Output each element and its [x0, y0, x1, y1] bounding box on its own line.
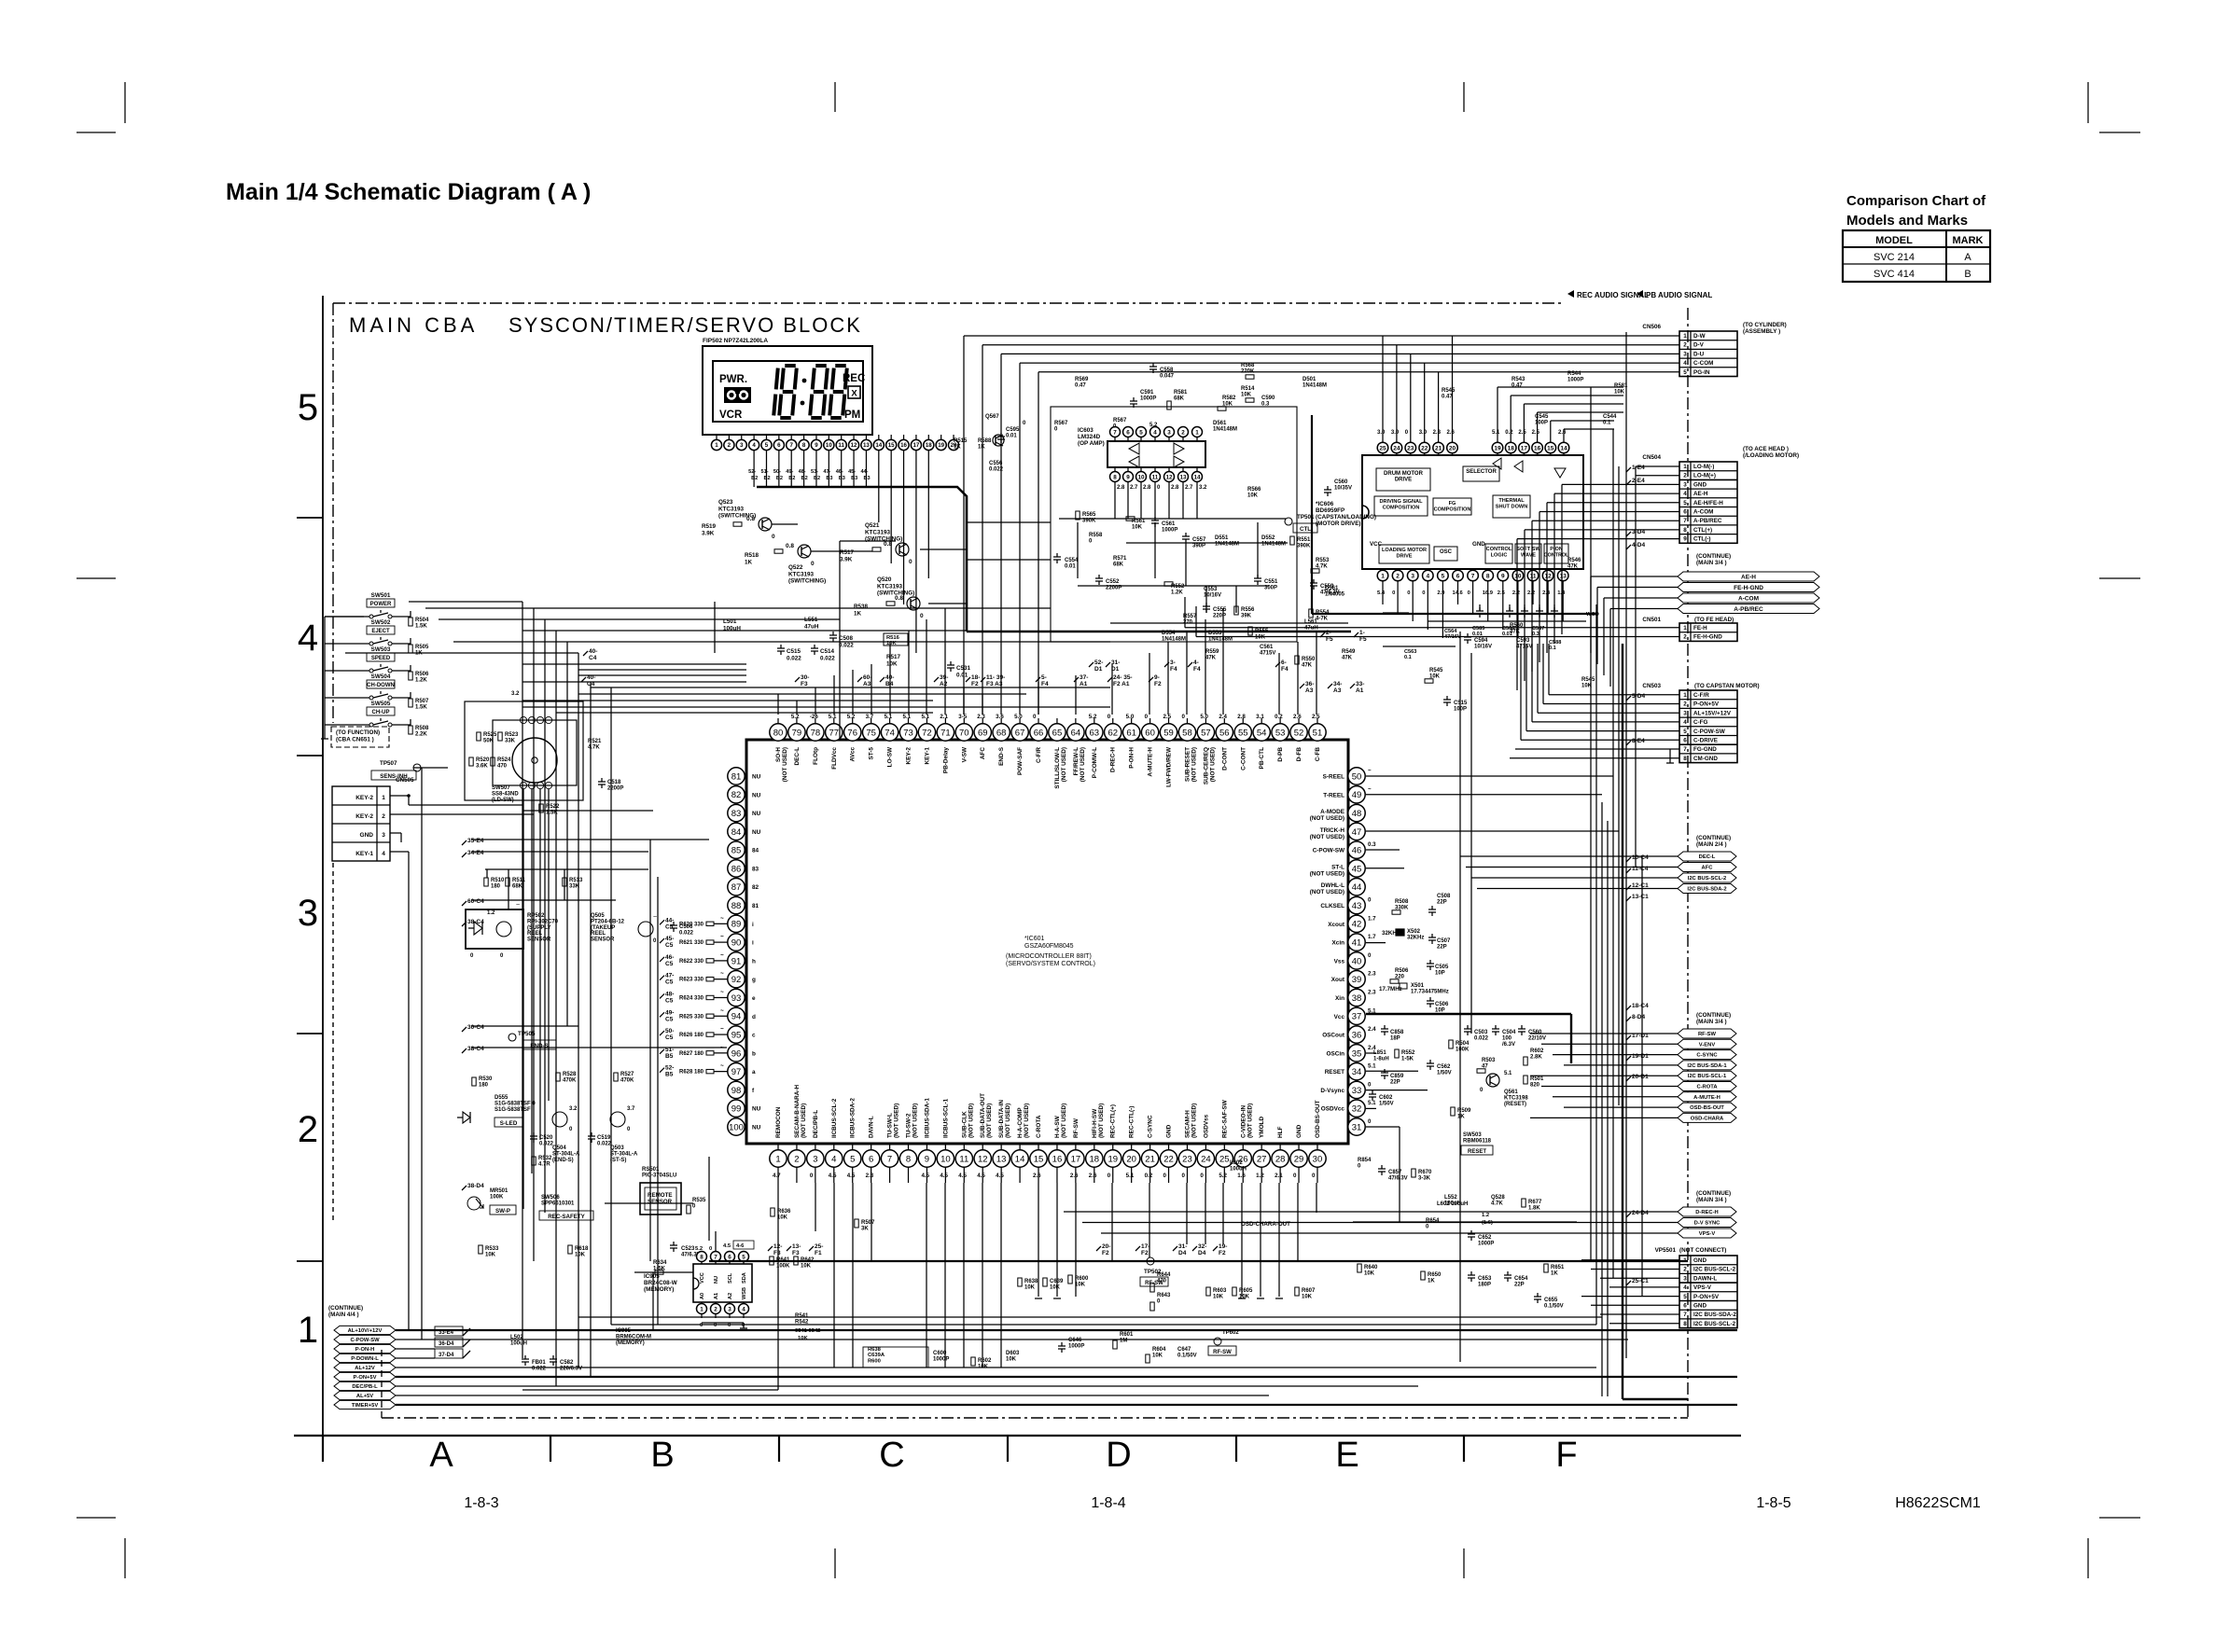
- svg-text:REEL: REEL: [591, 931, 606, 937]
- svg-text:45-: 45-: [665, 936, 674, 942]
- svg-text:SENSOR: SENSOR: [527, 937, 551, 943]
- svg-text:DEC-L: DEC-L: [1699, 854, 1716, 860]
- svg-text:A3: A3: [1333, 687, 1342, 694]
- svg-text:C520: C520: [539, 1135, 553, 1141]
- svg-text:1: 1: [1381, 573, 1385, 579]
- svg-text:D4: D4: [1178, 1250, 1187, 1256]
- svg-text:10/16V: 10/16V: [1474, 644, 1492, 649]
- svg-text:97: 97: [731, 1067, 742, 1077]
- svg-text:100uH: 100uH: [510, 1340, 527, 1346]
- svg-text:36-D4: 36-D4: [439, 1341, 454, 1347]
- svg-text:50-: 50-: [665, 1028, 674, 1034]
- svg-text:0: 0: [709, 1246, 712, 1252]
- svg-text:WSB: WSB: [742, 1287, 747, 1299]
- svg-text:180P: 180P: [1478, 1282, 1491, 1287]
- svg-text:0: 0: [1107, 1173, 1111, 1179]
- svg-text:A-PB/REC: A-PB/REC: [1734, 606, 1763, 613]
- svg-text:T-REEL: T-REEL: [1323, 792, 1344, 798]
- svg-text:47/16V: 47/16V: [1444, 634, 1461, 640]
- svg-text:10K: 10K: [801, 1263, 812, 1269]
- svg-text:82: 82: [752, 884, 759, 891]
- svg-text:R509: R509: [1457, 1108, 1471, 1114]
- svg-text:~: ~: [720, 1045, 724, 1051]
- svg-text:R621 330: R621 330: [679, 940, 704, 946]
- svg-text:36: 36: [1352, 1030, 1362, 1040]
- svg-text:REC-CTL(+): REC-CTL(+): [1110, 1104, 1117, 1138]
- svg-text:Q567: Q567: [985, 414, 999, 420]
- svg-text:3: 3: [382, 832, 385, 839]
- svg-text:R670: R670: [1418, 1170, 1432, 1175]
- svg-text:C-DRIVE: C-DRIVE: [1693, 737, 1718, 743]
- svg-text:R626 180: R626 180: [679, 1033, 704, 1038]
- svg-text:X501: X501: [1411, 983, 1425, 989]
- svg-text:470: 470: [497, 763, 508, 769]
- svg-text:a: a: [752, 1069, 756, 1076]
- svg-text:(ASSEMBLY ): (ASSEMBLY ): [1743, 328, 1780, 335]
- svg-text:64: 64: [1071, 728, 1081, 738]
- svg-text:(NOT USED): (NOT USED): [1098, 1104, 1105, 1138]
- svg-text:25: 25: [1379, 445, 1386, 451]
- svg-text:11: 11: [1152, 474, 1159, 480]
- svg-text:0: 0: [1468, 590, 1470, 596]
- svg-text:P-ON-H: P-ON-H: [355, 1347, 375, 1353]
- svg-text:R527: R527: [620, 1072, 634, 1077]
- svg-text:D603: D603: [1006, 1351, 1020, 1356]
- svg-text:7: 7: [887, 1154, 892, 1164]
- svg-text:53-: 53-: [811, 469, 818, 475]
- svg-text:6: 6: [1683, 1302, 1687, 1309]
- svg-text:11: 11: [959, 1154, 968, 1164]
- svg-text:0: 0: [810, 1173, 814, 1179]
- svg-text:2.8K: 2.8K: [1530, 1054, 1542, 1060]
- svg-text:C-POW-SW: C-POW-SW: [1693, 729, 1725, 735]
- svg-text:220P: 220P: [1213, 613, 1226, 618]
- svg-text:(MAIN 4/4 ): (MAIN 4/4 ): [328, 1312, 359, 1318]
- svg-text:BR24C08-W: BR24C08-W: [644, 1280, 677, 1286]
- svg-text:KTC3193: KTC3193: [877, 583, 902, 590]
- svg-text:1000P: 1000P: [1140, 396, 1156, 401]
- svg-text:5.1: 5.1: [885, 714, 893, 720]
- svg-text:2.6: 2.6: [1293, 714, 1302, 720]
- svg-text:1N4148M: 1N4148M: [1215, 541, 1239, 547]
- svg-text:g: g: [752, 977, 756, 983]
- svg-text:R628 180: R628 180: [679, 1070, 704, 1076]
- svg-text:100: 100: [729, 1122, 744, 1132]
- svg-text:DEC/PB-L: DEC/PB-L: [813, 1110, 819, 1138]
- svg-text:91: 91: [731, 956, 742, 966]
- svg-text:3.1: 3.1: [1256, 714, 1264, 720]
- svg-text:3K: 3K: [861, 1226, 869, 1231]
- svg-text:P-DOWN-L: P-DOWN-L: [351, 1356, 379, 1362]
- svg-text:F2: F2: [971, 681, 979, 687]
- svg-text:0.01: 0.01: [1502, 632, 1512, 637]
- svg-text:50-: 50-: [773, 469, 781, 475]
- svg-text:LOADING MOTOR: LOADING MOTOR: [1382, 548, 1427, 553]
- svg-text:ST-5: ST-5: [869, 747, 875, 760]
- svg-text:C519: C519: [597, 1135, 611, 1141]
- svg-text:R854: R854: [1358, 1158, 1372, 1163]
- svg-text:C561: C561: [1260, 645, 1274, 650]
- svg-text:REC-SAF-SW: REC-SAF-SW: [1221, 1099, 1228, 1138]
- svg-text:(NOT USED): (NOT USED): [1310, 834, 1344, 840]
- svg-text:SUB-DATA-IN: SUB-DATA-IN: [998, 1100, 1005, 1138]
- svg-text:1000P: 1000P: [1567, 377, 1583, 382]
- svg-text:0: 0: [1181, 1173, 1185, 1179]
- svg-text:3: 3: [298, 893, 318, 934]
- svg-text:R638: R638: [1024, 1279, 1038, 1284]
- svg-text:17-: 17-: [1141, 1243, 1149, 1250]
- svg-text:(MAIN 3/4 ): (MAIN 3/4 ): [1696, 560, 1727, 566]
- svg-text:A3: A3: [863, 681, 871, 687]
- svg-text:1: 1: [1683, 625, 1687, 632]
- svg-text:Vcc: Vcc: [1334, 1014, 1345, 1020]
- svg-text:DRIVE: DRIVE: [1396, 554, 1412, 560]
- svg-text:C582: C582: [560, 1360, 574, 1366]
- svg-text:F1: F1: [815, 1250, 822, 1256]
- svg-text:P-ON+5V: P-ON+5V: [354, 1375, 377, 1381]
- svg-text:F3: F3: [773, 1250, 781, 1256]
- svg-text:3.0: 3.0: [1419, 430, 1428, 436]
- svg-text:SO-H: SO-H: [775, 747, 782, 762]
- svg-text:62: 62: [1107, 728, 1118, 738]
- svg-text:AVcc: AVcc: [850, 747, 857, 762]
- svg-text:3.2: 3.2: [1199, 485, 1207, 491]
- svg-text:1M: 1M: [1120, 1338, 1127, 1343]
- svg-text:A-COM: A-COM: [1738, 595, 1759, 602]
- svg-text:0.022: 0.022: [1474, 1035, 1489, 1041]
- svg-text:AE-H: AE-H: [1741, 574, 1756, 580]
- svg-text:5.1: 5.1: [921, 714, 929, 720]
- svg-text:SW504: SW504: [371, 673, 391, 680]
- svg-text:(CONTINUE): (CONTINUE): [1696, 553, 1731, 560]
- svg-text:22: 22: [1421, 445, 1428, 451]
- svg-text:F4: F4: [1041, 681, 1049, 687]
- svg-text:(CONTINUE): (CONTINUE): [328, 1305, 363, 1312]
- svg-text:Q503: Q503: [610, 1145, 624, 1151]
- svg-text:R640: R640: [1364, 1265, 1378, 1270]
- svg-text:DAWN-L: DAWN-L: [1693, 1275, 1717, 1282]
- svg-text:9-: 9-: [1154, 674, 1160, 681]
- svg-text:1-8uH: 1-8uH: [1373, 1056, 1389, 1062]
- svg-text:SDA: SDA: [742, 1272, 747, 1284]
- svg-text:B2: B2: [751, 476, 758, 481]
- svg-text:1-8-3: 1-8-3: [464, 1495, 498, 1511]
- svg-text:HLF: HLF: [1277, 1126, 1284, 1138]
- svg-text:C523: C523: [681, 1246, 695, 1252]
- svg-text:SW501: SW501: [371, 592, 391, 599]
- svg-text:SW502: SW502: [371, 619, 391, 626]
- svg-text:94: 94: [731, 1012, 742, 1022]
- svg-text:37-: 37-: [1080, 674, 1088, 681]
- svg-text:R510: R510: [491, 878, 505, 883]
- svg-text:C: C: [879, 1436, 904, 1475]
- svg-text:KEY-1: KEY-1: [924, 747, 930, 765]
- svg-text:1N4148M: 1N4148M: [1261, 541, 1286, 547]
- svg-text:89: 89: [731, 920, 742, 930]
- svg-text:39-: 39-: [940, 674, 948, 681]
- svg-text:0: 0: [700, 1323, 703, 1328]
- svg-text:390K: 390K: [1297, 543, 1311, 548]
- svg-text:LO-M(+): LO-M(+): [1693, 473, 1716, 479]
- svg-text:100K: 100K: [490, 1194, 504, 1200]
- svg-text:B4: B4: [885, 681, 894, 687]
- svg-text:(NOT USED): (NOT USED): [1080, 747, 1086, 782]
- svg-text:LM324D: LM324D: [1078, 434, 1101, 440]
- svg-text:R618: R618: [575, 1246, 589, 1252]
- svg-text:D501: D501: [1303, 377, 1316, 382]
- svg-text:C-SYNC: C-SYNC: [1696, 1053, 1718, 1059]
- svg-text:AE-H/FE-H: AE-H/FE-H: [1693, 500, 1723, 507]
- svg-text:GND: GND: [1166, 1124, 1173, 1138]
- svg-text:TP507: TP507: [380, 760, 397, 767]
- svg-text:6: 6: [728, 1254, 731, 1260]
- svg-text:2.8: 2.8: [1237, 714, 1246, 720]
- svg-text:6-: 6-: [1281, 659, 1287, 666]
- svg-text:R643: R643: [1157, 1293, 1171, 1298]
- svg-text:TU-SW-2: TU-SW-2: [906, 1113, 912, 1138]
- svg-text:36-: 36-: [1305, 681, 1314, 687]
- svg-text:R545: R545: [1581, 677, 1595, 683]
- svg-text:10K: 10K: [1213, 1294, 1224, 1299]
- svg-text:2.9: 2.9: [1437, 590, 1445, 596]
- svg-text:4: 4: [1683, 1284, 1687, 1291]
- svg-text:8: 8: [906, 1154, 911, 1164]
- svg-text:P-ON+5V: P-ON+5V: [1693, 1294, 1720, 1300]
- svg-text:(NOT USED): (NOT USED): [968, 1104, 974, 1138]
- svg-text:KEY-2: KEY-2: [355, 813, 373, 820]
- svg-text:F3: F3: [801, 681, 808, 687]
- svg-text:ST-304L-A: ST-304L-A: [610, 1151, 638, 1157]
- svg-text:0.01: 0.01: [956, 672, 968, 678]
- svg-text:C544: C544: [1603, 414, 1617, 420]
- svg-text:D551: D551: [1215, 535, 1229, 541]
- svg-text:(LD-SW): (LD-SW): [492, 798, 514, 803]
- svg-text:2: 2: [714, 1306, 717, 1312]
- svg-text:AFC: AFC: [1702, 866, 1714, 871]
- svg-text:X502: X502: [1407, 929, 1421, 935]
- svg-text:C508: C508: [1437, 894, 1451, 899]
- svg-text:10K: 10K: [1006, 1356, 1017, 1362]
- svg-text:F4: F4: [1193, 666, 1201, 673]
- svg-text:2.6: 2.6: [1033, 1173, 1041, 1179]
- svg-text:R506: R506: [1395, 968, 1409, 974]
- svg-text:16: 16: [1534, 445, 1541, 451]
- svg-text:R553: R553: [1316, 558, 1330, 563]
- svg-text:SUB-DATA-OUT: SUB-DATA-OUT: [980, 1093, 986, 1138]
- svg-text:(NOT USED): (NOT USED): [1310, 815, 1344, 822]
- svg-text:MODEL: MODEL: [1875, 235, 1913, 246]
- svg-text:R530: R530: [479, 1076, 493, 1082]
- svg-text:F2: F2: [1154, 681, 1162, 687]
- svg-text:4.7K: 4.7K: [588, 744, 600, 750]
- svg-text:14: 14: [875, 442, 882, 449]
- svg-text:(SWITCHING): (SWITCHING): [788, 578, 826, 585]
- svg-text:DRUM MOTOR: DRUM MOTOR: [1384, 471, 1424, 477]
- svg-text:20-: 20-: [1102, 1243, 1110, 1250]
- svg-text:3: 3: [1683, 1275, 1687, 1282]
- svg-text:69: 69: [978, 728, 988, 738]
- svg-text:2-E4: 2-E4: [1632, 478, 1645, 484]
- svg-text:*IC601: *IC601: [1024, 936, 1045, 942]
- svg-text:TP505: TP505: [518, 1031, 536, 1037]
- svg-text:C508: C508: [839, 635, 854, 642]
- svg-text:1.7: 1.7: [1368, 934, 1376, 940]
- svg-text:AFC: AFC: [980, 747, 986, 760]
- svg-text:COMPOSITION: COMPOSITION: [1434, 507, 1471, 513]
- svg-text:WAVE: WAVE: [1521, 553, 1536, 559]
- svg-text:5.2: 5.2: [695, 1246, 703, 1252]
- svg-text:0.47: 0.47: [1075, 382, 1086, 388]
- svg-text:A-COM: A-COM: [1693, 508, 1713, 515]
- svg-text:79: 79: [792, 728, 802, 738]
- svg-text:C5: C5: [665, 997, 674, 1004]
- svg-text:B2: B2: [788, 476, 795, 481]
- svg-text:32KHz: 32KHz: [1407, 935, 1424, 940]
- svg-text:10K: 10K: [886, 660, 898, 667]
- svg-text:77: 77: [829, 728, 840, 738]
- svg-text:470K: 470K: [620, 1077, 634, 1083]
- svg-text:A0: A0: [700, 1293, 705, 1299]
- svg-text:R561: R561: [1132, 519, 1146, 524]
- svg-text:Q522: Q522: [788, 564, 803, 571]
- svg-text:12: 12: [1544, 573, 1552, 579]
- svg-text:Vss: Vss: [1334, 958, 1345, 965]
- svg-text:c: c: [752, 1033, 756, 1039]
- svg-text:13-: 13-: [792, 1243, 801, 1250]
- svg-text:3.6K: 3.6K: [476, 763, 488, 769]
- svg-text:(MEMORY): (MEMORY): [616, 1340, 645, 1346]
- svg-text:2.7: 2.7: [1130, 485, 1138, 491]
- svg-text:0: 0: [909, 559, 912, 565]
- svg-text:1000P: 1000P: [1162, 527, 1177, 533]
- svg-text:AL+15V/+12V: AL+15V/+12V: [1693, 710, 1732, 716]
- svg-text:5.1: 5.1: [903, 714, 912, 720]
- svg-text:8: 8: [1683, 527, 1687, 534]
- svg-text:8: 8: [700, 1254, 704, 1260]
- svg-text:D-V: D-V: [1693, 342, 1705, 349]
- svg-text:5.4: 5.4: [1377, 590, 1386, 596]
- svg-text:R517: R517: [886, 654, 901, 660]
- svg-text:CN501: CN501: [1642, 617, 1661, 623]
- svg-text:D-PB: D-PB: [1277, 747, 1284, 762]
- svg-text:1: 1: [1195, 429, 1199, 436]
- svg-text:D-REC-H: D-REC-H: [1695, 1210, 1718, 1215]
- svg-text:D-U: D-U: [1693, 351, 1705, 357]
- svg-text:5: 5: [765, 442, 769, 449]
- svg-text:R533: R533: [485, 1246, 499, 1252]
- svg-text:R603: R603: [1213, 1288, 1227, 1294]
- svg-text:7: 7: [1683, 746, 1687, 753]
- svg-text:3: 3: [1683, 351, 1687, 357]
- svg-text:(TO FE HEAD): (TO FE HEAD): [1694, 617, 1734, 623]
- svg-text:15: 15: [888, 442, 895, 449]
- svg-text:2.2: 2.2: [1527, 590, 1535, 596]
- svg-text:2.2K: 2.2K: [415, 731, 427, 737]
- svg-text:R517: R517: [840, 549, 855, 556]
- svg-text:C5: C5: [665, 979, 674, 986]
- svg-text:C5: C5: [665, 923, 674, 930]
- svg-text:1.7: 1.7: [1368, 915, 1376, 922]
- svg-text:(MEMORY): (MEMORY): [644, 1286, 674, 1293]
- svg-text:87: 87: [731, 882, 742, 893]
- svg-text:2: 2: [1683, 342, 1687, 349]
- svg-text:0.2: 0.2: [1505, 430, 1513, 436]
- svg-text:4: 4: [1683, 360, 1687, 367]
- svg-text:KTC3193: KTC3193: [865, 529, 890, 535]
- svg-text:C5: C5: [665, 1016, 674, 1022]
- svg-text:GND: GND: [1296, 1124, 1303, 1138]
- svg-text:VPS-V: VPS-V: [1699, 1231, 1716, 1237]
- svg-text:2: 2: [728, 442, 731, 449]
- svg-text:47K: 47K: [1205, 655, 1217, 660]
- svg-text:10: 10: [1514, 573, 1522, 579]
- svg-text:Q521: Q521: [865, 522, 880, 529]
- svg-text:35-E4: 35-E4: [467, 838, 484, 844]
- svg-text:P-ON: P-ON: [1550, 547, 1563, 552]
- svg-text:(NOT USED): (NOT USED): [894, 1104, 900, 1138]
- svg-text:7: 7: [789, 442, 793, 449]
- svg-text:R504: R504: [415, 618, 429, 623]
- svg-text:B3: B3: [826, 476, 832, 481]
- svg-text:24-D4: 24-D4: [1632, 1210, 1649, 1216]
- svg-text:D-V SYNC: D-V SYNC: [1694, 1221, 1721, 1227]
- svg-text:31-: 31-: [1178, 1243, 1187, 1250]
- svg-text:R545: R545: [1429, 668, 1443, 673]
- svg-text:(TO FUNCTION): (TO FUNCTION): [336, 729, 380, 736]
- svg-text:R568: R568: [1241, 363, 1255, 368]
- svg-text:18: 18: [926, 442, 932, 449]
- svg-text:42: 42: [1352, 920, 1362, 930]
- svg-text:2.3: 2.3: [1368, 971, 1376, 978]
- svg-text:0: 0: [1200, 1173, 1204, 1179]
- svg-text:7: 7: [1683, 1312, 1687, 1318]
- svg-text:63: 63: [1090, 728, 1100, 738]
- svg-text:3.0: 3.0: [1377, 430, 1386, 436]
- svg-text:D: D: [1106, 1436, 1131, 1475]
- svg-text:I2C BUS-SCL-2: I2C BUS-SCL-2: [1693, 1321, 1736, 1327]
- svg-text:24: 24: [1201, 1154, 1211, 1164]
- svg-text:78: 78: [811, 728, 821, 738]
- svg-text:EJECT: EJECT: [371, 629, 390, 634]
- svg-text:38: 38: [1352, 993, 1362, 1004]
- svg-text:SW-P: SW-P: [495, 1208, 510, 1215]
- svg-text:72: 72: [922, 728, 932, 738]
- svg-text:14: 14: [1193, 474, 1201, 480]
- svg-text:SUB-CLK: SUB-CLK: [961, 1111, 968, 1138]
- svg-text:52-: 52-: [665, 1065, 674, 1072]
- svg-text:C652: C652: [1478, 1235, 1492, 1241]
- svg-text:0: 0: [1407, 590, 1410, 596]
- svg-text:5: 5: [742, 1254, 745, 1260]
- svg-text:4: 4: [298, 618, 318, 659]
- svg-text:2.6: 2.6: [1558, 430, 1567, 436]
- svg-text:0.3: 0.3: [1368, 841, 1376, 848]
- svg-text:A3: A3: [1305, 687, 1314, 694]
- svg-text:S-LED: S-LED: [500, 1120, 518, 1127]
- svg-text:82: 82: [731, 790, 742, 800]
- svg-text:4: 4: [1153, 429, 1157, 436]
- svg-text:R521: R521: [588, 739, 602, 744]
- svg-text:2.8: 2.8: [1433, 430, 1442, 436]
- svg-text:5.1: 5.1: [1126, 1173, 1135, 1179]
- svg-text:BRM6COM-M: BRM6COM-M: [616, 1334, 651, 1340]
- svg-text:4: 4: [831, 1154, 836, 1164]
- svg-text:5-D4: 5-D4: [1632, 693, 1645, 700]
- svg-text:Q505: Q505: [591, 913, 605, 919]
- svg-text:4.5: 4.5: [940, 1173, 948, 1179]
- svg-text:OSD-BS-OUT: OSD-BS-OUT: [1690, 1105, 1724, 1111]
- svg-text:R522: R522: [546, 804, 560, 810]
